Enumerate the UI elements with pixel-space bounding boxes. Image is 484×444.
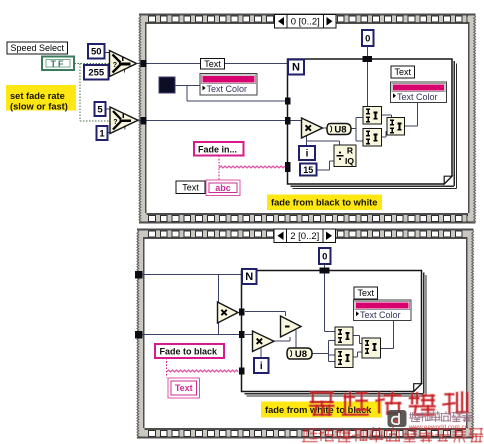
- loop1 iteration terminal i: [299, 146, 315, 160]
- for loop frame2 border: [242, 271, 422, 392]
- for loop frame1 folded corner: [444, 176, 452, 184]
- property node Text Color loop2 owner label Text: [354, 287, 378, 299]
- svg-text:TF: TF: [51, 59, 66, 69]
- loop2 iteration terminal i: [254, 358, 269, 373]
- string wire Fade in to loop: [218, 156, 220, 180]
- wire 0 into loop2: [324, 264, 326, 268]
- wire loop1 multiply inputs: [291, 120, 302, 122]
- property node Text Color loop1 owner label Text: [391, 66, 415, 78]
- svg-text:f: f: [124, 69, 126, 75]
- loop2 count terminal N: [242, 269, 257, 284]
- sequence frame 1 film-strip top band: [139, 14, 476, 25]
- svg-text:f: f: [124, 126, 126, 132]
- sequence frame 2 film-strip top band: [137, 229, 474, 240]
- watermark bottom red line: [303, 429, 317, 442]
- wire 0 into loop1: [367, 46, 369, 56]
- string local variable abc: [206, 180, 240, 196]
- string constant Fade in...: [194, 142, 244, 156]
- svg-text:U8: U8: [334, 125, 346, 136]
- numeric constant 50: [88, 44, 105, 59]
- boolean wire TF to selects: [75, 63, 110, 65]
- U8 conversion loop2: [287, 348, 312, 359]
- for loop frame2 folded corner: [414, 384, 422, 392]
- svg-text:5: 5: [97, 104, 103, 115]
- svg-text:fade from black to white: fade from black to white: [271, 198, 377, 208]
- wire multiply to U8 conversion: [323, 127, 328, 129]
- join numbers B loop1: [363, 129, 382, 147]
- svg-text:Text: Text: [204, 59, 221, 69]
- wire select lower into loop2: [143, 334, 242, 336]
- numeric constant 0 frame2: [319, 248, 331, 264]
- watermark big red text yidituo peixun: [310, 393, 333, 415]
- sequence frame 1 film-strip right band: [468, 16, 476, 222]
- join numbers A loop2: [335, 327, 353, 345]
- svg-text:U8: U8: [295, 349, 307, 360]
- quotient and remainder node: [334, 145, 356, 167]
- tunnel loop1 left upper: [285, 98, 291, 105]
- watermark eeworld logo: [388, 410, 407, 427]
- tunnel loop2 left middle: [239, 331, 245, 338]
- wire subtract to U8: [295, 330, 297, 348]
- numeric constant 5: [95, 102, 106, 116]
- sequence frame 1 film-strip left band: [139, 16, 147, 222]
- wire select upper to loop2 N: [143, 274, 243, 276]
- property node Text Color loop2: [354, 300, 412, 321]
- svg-text:i: i: [306, 148, 309, 159]
- svg-text:abc: abc: [215, 183, 231, 193]
- boolean terminal TF: [42, 57, 74, 71]
- property node Text Color loop1: [391, 82, 447, 103]
- join numbers B loop2: [335, 349, 353, 368]
- svg-text:?: ?: [113, 62, 117, 69]
- svg-text:0: 0: [365, 33, 370, 44]
- svg-text:N: N: [292, 61, 300, 73]
- tunnel loop1 left middle: [285, 117, 291, 125]
- svg-text:255: 255: [88, 68, 105, 79]
- numeric constant 15: [300, 164, 317, 176]
- svg-text:2 [0..2]: 2 [0..2]: [290, 231, 319, 242]
- label Text frame1 string: [176, 181, 205, 194]
- wire select lower output into frame 1: [138, 120, 291, 122]
- wire select upper output to loop count N: [137, 63, 289, 65]
- wire join A2 to C2: [353, 335, 360, 337]
- free label fade from black to white: [267, 195, 382, 211]
- wire U8 to join nodes: [351, 128, 356, 130]
- svg-text:Text Color: Text Color: [397, 92, 438, 102]
- svg-text:Text: Text: [182, 182, 199, 192]
- join numbers A loop1: [363, 107, 382, 125]
- svg-text:(slow or fast): (slow or fast): [10, 102, 68, 112]
- tunnel loop2 left upper: [239, 309, 245, 316]
- U8 conversion loop1: [327, 124, 351, 135]
- wire join C to property node: [405, 125, 418, 127]
- sequence frame 2 film-strip left band: [137, 231, 145, 437]
- svg-text:Fade in...: Fade in...: [198, 144, 237, 154]
- tunnel frame1 left lower: [141, 117, 147, 125]
- join numbers C loop1: [387, 118, 405, 136]
- svg-text:1: 1: [99, 128, 105, 139]
- select function upper: [110, 51, 137, 77]
- for loop frame1 stacked border offset lines: [453, 61, 455, 186]
- numeric constant 255: [84, 65, 109, 80]
- svg-text:0 [0..2]: 0 [0..2]: [291, 17, 320, 28]
- wire 15 to quotient remainder: [317, 169, 330, 171]
- svg-text:Text Color: Text Color: [207, 84, 248, 94]
- svg-text:50: 50: [91, 47, 102, 58]
- svg-text:Text: Text: [175, 383, 193, 393]
- wire multiply outer to subtract: [245, 311, 286, 313]
- property node Text Color frame1 outer: [200, 74, 257, 96]
- svg-text:N: N: [245, 271, 253, 283]
- tunnel frame1 left upper: [141, 60, 147, 67]
- wire 50 to select: [104, 52, 111, 54]
- svg-text:set fade rate: set fade rate: [10, 91, 65, 101]
- svg-text:Speed Select: Speed Select: [10, 43, 64, 53]
- free label fade from white to black: [261, 402, 382, 418]
- numeric constant 1: [97, 126, 108, 140]
- sequence frame 2 film-strip bottom band: [137, 428, 474, 439]
- select function lower: [110, 107, 138, 134]
- svg-text:Fade to black: Fade to black: [160, 347, 219, 357]
- tunnel frame2 left upper: [135, 271, 143, 279]
- sequence frame 1 film-strip bottom band: [139, 213, 476, 224]
- join numbers C loop2: [362, 338, 381, 358]
- numeric constant 0 frame1: [362, 30, 374, 46]
- wire color box to property node and loop: [175, 85, 200, 87]
- sequence selector label 2 [0..2]: [274, 229, 336, 243]
- string local variable Text: [168, 378, 200, 398]
- free label set fade rate: [6, 85, 76, 111]
- svg-text:Text: Text: [394, 67, 411, 77]
- tunnel frame2 left lower: [135, 331, 143, 339]
- color box constant black: [159, 77, 175, 93]
- wire join C2 to property node 2: [381, 348, 394, 350]
- subtract node loop2: [281, 316, 302, 337]
- watermark eeworld text: [410, 413, 420, 422]
- svg-text:Text: Text: [357, 288, 374, 298]
- multiply node loop1: [302, 118, 323, 138]
- wire 255 to select: [108, 71, 112, 73]
- control label Speed Select: [7, 42, 68, 54]
- multiply node loop2: [253, 331, 275, 352]
- wire join A to join C: [382, 114, 392, 116]
- tunnel loop1 top: [363, 56, 373, 62]
- string wire Fade to black to loop: [166, 358, 168, 378]
- wire join B2 to C2: [353, 356, 358, 358]
- svg-text:i: i: [260, 361, 263, 372]
- for loop frame2 stacked border offset lines: [423, 273, 425, 394]
- string constant Fade to black: [155, 344, 224, 358]
- for loop frame1 border: [288, 59, 453, 184]
- tunnel loop1 left string: [285, 162, 291, 172]
- wire 5 to select: [105, 108, 113, 110]
- svg-text:Text Color: Text Color: [360, 310, 401, 320]
- sequence frame 2 film-strip right band: [466, 231, 474, 437]
- wire U8 to joins frame2: [312, 353, 329, 355]
- svg-text:IQ: IQ: [345, 156, 354, 166]
- loop1 count terminal N: [288, 60, 304, 75]
- label Text frame1 outer: [201, 59, 225, 70]
- wire multiply inner to subtract: [274, 340, 290, 342]
- tunnel loop2 top: [320, 268, 330, 274]
- tunnel loop2 left string: [239, 368, 245, 375]
- wire i to multiply inner: [260, 348, 262, 359]
- multiply node frame2 outer: [218, 302, 239, 323]
- wire join B to join C: [382, 136, 387, 138]
- svg-text:?: ?: [113, 119, 117, 126]
- sequence selector label 0 [0..2]: [275, 15, 337, 29]
- svg-text:R: R: [347, 146, 353, 156]
- svg-text:0: 0: [322, 251, 327, 262]
- wire 1 to select: [107, 132, 114, 134]
- svg-text:15: 15: [303, 165, 313, 175]
- wire into multiply inner: [245, 334, 253, 336]
